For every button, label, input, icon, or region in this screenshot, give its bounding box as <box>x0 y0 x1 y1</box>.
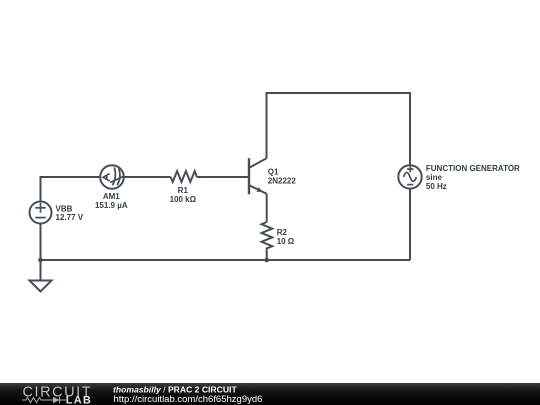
wire top horizontal <box>266 92 411 94</box>
svg-text:thomasbilly / PRAC 2 CIRCUIT: thomasbilly / PRAC 2 CIRCUIT <box>113 385 237 395</box>
ammeter AM1 <box>100 165 124 189</box>
ammeter A glyph <box>103 174 110 181</box>
wire VBB bottom <box>40 224 42 261</box>
wire VBB top to corner <box>40 177 42 202</box>
function generator V1 <box>398 165 421 188</box>
wire R1 to base <box>197 176 248 178</box>
junction at VBB bottom <box>38 258 43 263</box>
resistor R2 <box>262 222 273 251</box>
wire ammeter to R1 <box>124 176 171 178</box>
junction at R2 bottom <box>264 258 269 263</box>
svg-text:100 kΩ: 100 kΩ <box>170 195 197 204</box>
wire R2 to bottom <box>266 251 268 260</box>
wire bottom horizontal <box>41 259 411 261</box>
wire corner to ammeter <box>41 177 101 178</box>
wire emitter vertical <box>266 194 268 222</box>
svg-text:R1: R1 <box>178 186 189 195</box>
svg-text:R2: R2 <box>277 228 288 237</box>
svg-text:sine: sine <box>426 173 443 182</box>
wire collector vertical <box>266 93 268 158</box>
svg-text:http://circuitlab.com/ch6f65hz: http://circuitlab.com/ch6f65hzg9yd6 <box>114 394 263 405</box>
svg-text:AM1: AM1 <box>103 192 120 201</box>
svg-text:2N2222: 2N2222 <box>268 177 297 186</box>
svg-text:LAB: LAB <box>66 395 92 405</box>
CircuitLab logo squiggle <box>22 397 66 403</box>
svg-text:12.77 V: 12.77 V <box>56 213 84 222</box>
wire function generator drop <box>409 92 411 165</box>
voltage source VBB <box>30 202 52 224</box>
svg-text:50 Hz: 50 Hz <box>426 182 447 191</box>
svg-text:Q1: Q1 <box>268 168 279 177</box>
ground <box>30 260 52 292</box>
svg-text:FUNCTION GENERATOR: FUNCTION GENERATOR <box>426 164 520 173</box>
wire function generator to bottom <box>409 189 411 260</box>
svg-text:151.9 µA: 151.9 µA <box>95 201 128 210</box>
transistor Q1 <box>249 158 267 194</box>
resistor R1 <box>171 171 197 182</box>
svg-text:10 Ω: 10 Ω <box>277 237 295 246</box>
svg-text:VBB: VBB <box>56 204 73 213</box>
